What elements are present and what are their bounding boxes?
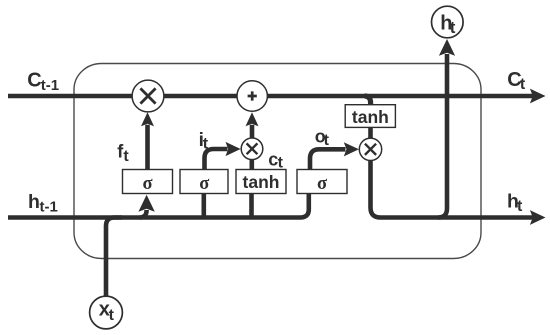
wire feed sigma1 with arrow <box>140 210 147 218</box>
svg-text:tanh: tanh <box>352 107 389 127</box>
node h_t circle <box>432 6 464 38</box>
gate tanh2 box <box>345 105 395 128</box>
svg-text:σ: σ <box>317 174 327 194</box>
svg-text:t: t <box>109 307 115 324</box>
wire sigma2 to times_i arrow <box>205 149 228 170</box>
wire tanh1 to times_i <box>250 158 255 172</box>
op times_f circle <box>132 80 164 112</box>
wire feed tanh1 <box>249 194 254 218</box>
svg-text:t: t <box>517 198 523 215</box>
svg-text:t-1: t-1 <box>41 77 59 94</box>
gate sigma1 box <box>123 170 173 194</box>
svg-text:σ: σ <box>142 174 152 194</box>
gate sigma3 box <box>297 170 347 194</box>
wire sigma1 to times_f arrow <box>145 125 150 170</box>
svg-text:t-1: t-1 <box>40 198 58 215</box>
svg-text:tanh: tanh <box>243 172 280 192</box>
svg-text:t: t <box>203 136 209 153</box>
svg-text:C: C <box>27 69 41 91</box>
svg-text:σ: σ <box>199 174 209 194</box>
wire times_i to plus arrow <box>250 125 255 138</box>
wire sigma3 to times_o arrow <box>310 149 346 169</box>
wire C branch into tanh2 <box>365 96 371 108</box>
svg-text:t: t <box>450 19 456 37</box>
gate tanh1 box <box>236 170 286 194</box>
arrow Ct out <box>530 89 546 104</box>
gate sigma2 box <box>180 170 228 194</box>
cell boundary <box>74 64 481 259</box>
op plus circle <box>237 81 267 111</box>
arrow into h_t circle <box>439 39 455 56</box>
svg-text:h: h <box>28 191 40 213</box>
op times_o circle <box>359 138 381 160</box>
wire tanh2 to times_o <box>368 126 373 140</box>
wire h_t branch up <box>438 54 447 218</box>
op times_i circle <box>241 138 263 160</box>
wire h output from times_o down then right <box>371 158 534 218</box>
svg-text:t: t <box>278 155 284 172</box>
wire x_t branch <box>106 218 122 298</box>
wire feed sigma2 <box>202 194 207 218</box>
wire h line left with turn up into sigma3 <box>8 194 309 218</box>
svg-text:t: t <box>520 76 526 93</box>
svg-text:t: t <box>324 132 330 149</box>
arrow ht out <box>530 210 546 225</box>
node x_t circle <box>90 296 123 329</box>
svg-text:t: t <box>123 148 129 165</box>
wire C line <box>8 94 534 99</box>
